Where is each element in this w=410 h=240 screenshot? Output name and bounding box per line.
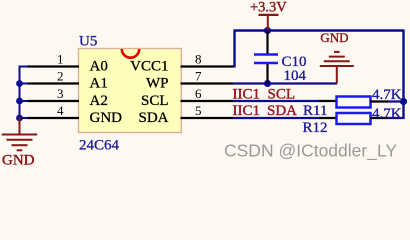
- wire stub pin2: [19, 83, 29, 85]
- svg-text:IIC1: IIC1: [233, 103, 261, 119]
- pin 1 line: [27, 65, 79, 67]
- svg-text:8: 8: [195, 52, 202, 67]
- svg-text:GND: GND: [320, 30, 348, 45]
- svg-text:4.7K: 4.7K: [372, 106, 402, 122]
- junction at right rail R11: [400, 98, 407, 105]
- svg-text:1: 1: [57, 52, 64, 67]
- svg-text:2: 2: [57, 69, 64, 84]
- svg-text:5: 5: [195, 103, 202, 118]
- ground symbol bottom left: [2, 118, 37, 169]
- svg-text:SCL: SCL: [268, 86, 296, 102]
- notch arc on U5: [122, 49, 139, 58]
- junction at C10 bottom node: [264, 80, 271, 87]
- wire: top +3.3V rail: [235, 29, 404, 31]
- wire: R11 right stub: [387, 100, 404, 102]
- pin 3 line: [27, 100, 79, 102]
- pin 2 line: [27, 82, 79, 84]
- junction at +3.3V node: [264, 27, 271, 34]
- svg-text:SDA: SDA: [138, 110, 168, 126]
- svg-text:U5: U5: [79, 34, 97, 50]
- junction at pin3: [16, 98, 23, 105]
- svg-text:3: 3: [57, 86, 64, 101]
- svg-text:CSDN @ICtoddler_LY: CSDN @ICtoddler_LY: [224, 141, 397, 162]
- ground symbol top right: [320, 30, 354, 84]
- IC U5 (24C64 EEPROM) body: [79, 49, 182, 133]
- pin 5 line: [181, 117, 234, 119]
- svg-text:A1: A1: [90, 76, 108, 92]
- svg-text:SDA: SDA: [267, 103, 297, 119]
- wire: left vertical bus: [19, 66, 21, 119]
- pin 8 line: [181, 65, 235, 67]
- junction at pin4: [16, 115, 23, 122]
- svg-text:104: 104: [284, 68, 307, 84]
- net label IIC1 SCL: [233, 86, 296, 102]
- svg-text:7: 7: [195, 69, 202, 84]
- wire: VCC1 drop: [233, 30, 235, 68]
- wire: SDA run: [233, 117, 320, 119]
- svg-text:WP: WP: [146, 76, 169, 92]
- svg-text:4.7K: 4.7K: [372, 87, 402, 103]
- pin 4 line: [27, 117, 79, 119]
- svg-text:R11: R11: [303, 103, 327, 119]
- junction at pin2: [16, 80, 23, 87]
- wire: pin7 to ground run: [233, 82, 337, 84]
- svg-text:IIC1: IIC1: [233, 87, 261, 103]
- wire: right rail: [402, 30, 404, 120]
- svg-text:A2: A2: [90, 93, 108, 109]
- wire stub pin4: [19, 117, 29, 119]
- resistor R11: [320, 97, 389, 108]
- capacitor C10: [254, 32, 278, 84]
- resistor R12: [320, 113, 389, 124]
- svg-text:R12: R12: [303, 120, 328, 136]
- net label IIC1 SDA: [233, 103, 298, 119]
- pin 7 line: [181, 82, 234, 84]
- power symbol +3.3V: [250, 0, 287, 30]
- svg-text:+3.3V: +3.3V: [250, 0, 287, 16]
- wire stub pin1: [19, 66, 29, 68]
- wire: SCL run: [233, 100, 320, 102]
- svg-text:4: 4: [57, 103, 64, 118]
- svg-text:A0: A0: [90, 59, 108, 75]
- svg-text:GND: GND: [2, 153, 35, 169]
- svg-text:6: 6: [195, 86, 202, 101]
- svg-text:VCC1: VCC1: [130, 59, 168, 75]
- svg-text:GND: GND: [90, 110, 123, 126]
- wire: R12 right stub: [387, 117, 404, 119]
- svg-text:24C64: 24C64: [79, 138, 120, 154]
- pin 6 line: [181, 100, 234, 102]
- wire stub pin3: [19, 100, 29, 102]
- svg-text:SCL: SCL: [141, 93, 169, 109]
